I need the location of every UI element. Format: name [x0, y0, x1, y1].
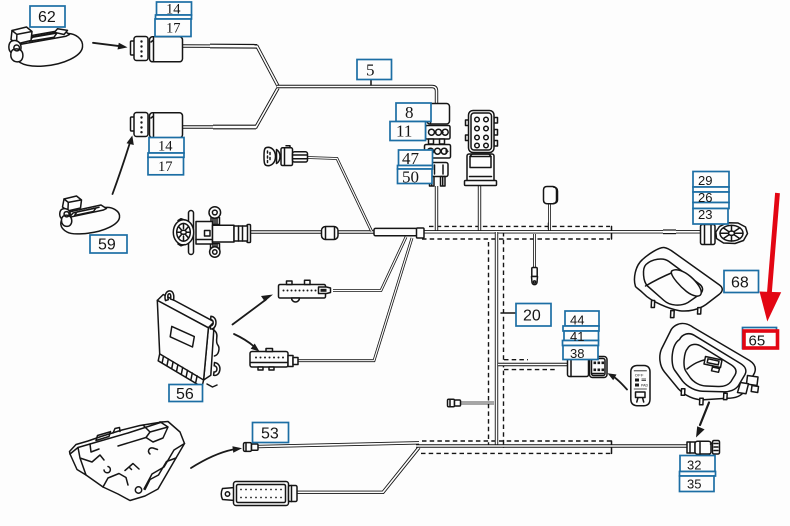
label 65 blue box behind red [743, 328, 777, 349]
grommet wheel [716, 223, 748, 244]
svg-text:41: 41 [570, 329, 584, 344]
svg-text:59: 59 [98, 237, 116, 254]
svg-text:17: 17 [166, 21, 181, 37]
arrow bezel 65 to connector 32 [696, 403, 709, 438]
lamp 59 [60, 196, 120, 234]
wire lamp B to Y-junction [181, 88, 278, 127]
label 68 [724, 271, 759, 293]
label 65 red highlight box [744, 331, 778, 350]
svg-text:14: 14 [166, 2, 181, 18]
label 5 [357, 60, 392, 86]
actuator end cap [247, 225, 251, 243]
arrow module to connector D [234, 334, 260, 352]
conduit vertical wire [495, 232, 498, 446]
arrow module to strip C [233, 295, 274, 325]
wire bulb socket diagonal to harness [307, 158, 372, 232]
cable ferrule [322, 227, 339, 240]
svg-text:53: 53 [261, 426, 279, 443]
svg-text:38: 38 [570, 346, 584, 361]
svg-text:44: 44 [570, 313, 584, 328]
pad switch (middle) [631, 366, 650, 406]
label 29/26/23 [693, 172, 729, 225]
svg-text:26: 26 [698, 190, 712, 205]
harness dashed outline top run [422, 223, 612, 239]
terminal strip 47 [425, 139, 451, 158]
wire 8-pin housing down to harness [478, 186, 481, 232]
wire lock knob down to harness [548, 204, 551, 231]
svg-text:11: 11 [396, 122, 412, 141]
stub wire on conduit [460, 402, 494, 405]
svg-text:14: 14 [158, 139, 173, 155]
harness bottom main wire [416, 444, 688, 447]
label 44/41/38 [563, 311, 600, 361]
stub connector tip [448, 399, 461, 406]
connector 50 [426, 163, 448, 187]
svg-text:29: 29 [698, 173, 712, 188]
connector body A (14/17) [150, 37, 183, 62]
dangling wire with bullet [533, 234, 536, 270]
cable sleeve end box [417, 228, 425, 238]
label 8 [396, 103, 431, 122]
label 47 [398, 149, 433, 187]
wire lamp A to Y-junction [181, 46, 278, 86]
door bezel 65 [660, 323, 759, 404]
svg-text:65: 65 [749, 333, 766, 350]
label 11 [390, 122, 426, 141]
svg-text:20: 20 [523, 308, 541, 325]
svg-text:8: 8 [405, 103, 414, 122]
arrow bracket to 53 [191, 446, 242, 468]
svg-text:62: 62 [38, 9, 56, 26]
svg-text:68: 68 [731, 275, 749, 292]
cable end bead [701, 225, 716, 245]
harness top main wire [420, 230, 701, 233]
8-pin connector block [466, 111, 498, 153]
wire connector 53 to harness [257, 443, 419, 447]
wire part 50 down to harness [435, 186, 438, 232]
bullet terminal on dangling wire [532, 268, 538, 285]
label 20 [501, 304, 551, 327]
svg-text:56: 56 [176, 386, 194, 403]
big plug E [221, 482, 297, 506]
connector D [250, 349, 298, 371]
bulb socket [264, 146, 308, 166]
connector F (38 left block) [568, 358, 589, 377]
terminal strip 11 [426, 126, 451, 140]
lock actuator assembly [173, 207, 247, 258]
label 56 [169, 385, 203, 403]
connector 32 [687, 441, 720, 458]
control module 56 [157, 291, 220, 387]
connector body B (14/17) [150, 113, 183, 138]
merged wire to connector 8 [277, 87, 437, 105]
arrow lamp 59 to connector B [113, 136, 134, 195]
label 62 [30, 6, 65, 27]
door bezel 68 [634, 247, 722, 317]
lamp 62 [9, 27, 83, 66]
harness dashed outline center conduit [489, 232, 557, 448]
lock knob transmitter [544, 187, 558, 204]
label 14 (top pair) [155, 2, 192, 37]
svg-text:23: 23 [698, 207, 712, 222]
connector 53 tip [244, 443, 259, 452]
label 59 [90, 235, 127, 254]
svg-text:47: 47 [402, 149, 420, 168]
arrow 62 to connector [93, 43, 128, 50]
svg-text:35: 35 [687, 477, 701, 492]
mounting bracket [70, 422, 185, 501]
8-pin housing [465, 154, 497, 186]
wire actuator to harness [250, 228, 420, 235]
label 53 [253, 423, 289, 443]
connector socket B (ribbed plug) [131, 113, 149, 137]
branch wire to connector 38 [498, 363, 568, 366]
wire strip connector C to harness corner [333, 237, 406, 291]
svg-text:50: 50 [402, 168, 419, 187]
label 32/35 [680, 456, 716, 492]
connector G (38 right block with grid) [590, 357, 608, 378]
arrow pad switch to connector G [608, 373, 628, 389]
svg-text:32: 32 [687, 458, 701, 473]
svg-text:5: 5 [366, 61, 375, 80]
svg-text:17: 17 [158, 159, 173, 175]
red arrow to 65 [760, 193, 782, 322]
wire connector D to harness corner [297, 238, 412, 361]
strip connector C [279, 280, 331, 302]
connector socket A (ribbed plug) [131, 37, 149, 61]
harness dashed outline bottom run [421, 441, 612, 453]
svg-text:PAD: PAD [641, 384, 649, 388]
svg-text:OFF: OFF [635, 373, 644, 378]
label 14/17 (second pair) [148, 138, 184, 176]
wire big plug to harness [296, 448, 419, 493]
connector 8 [424, 104, 450, 125]
